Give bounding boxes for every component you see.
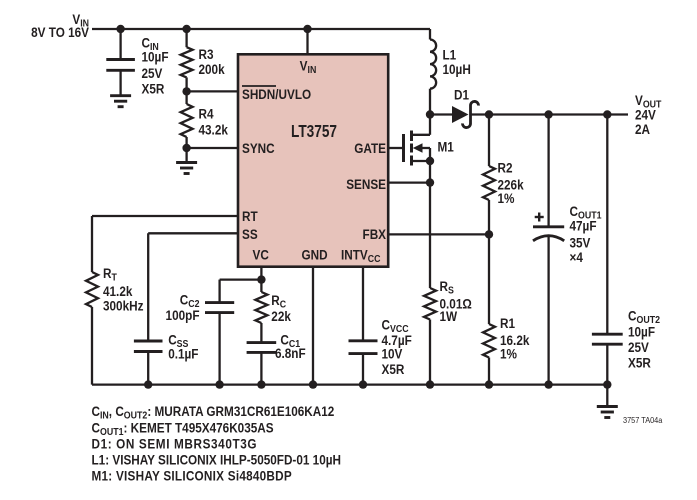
node CIN junction [116,25,124,33]
wire output rail [489,113,628,115]
svg-text:25V: 25V [142,65,163,81]
label U1 pin RT [242,208,258,224]
svg-text:GND: GND [302,247,328,263]
wire VC to CC2 [220,280,262,303]
svg-text:RT: RT [242,208,258,224]
resistor R3 [181,29,193,91]
node COUT1 junction [544,110,552,118]
label BOM note line 5 [92,468,293,484]
wire INTVCC pin [362,266,364,341]
svg-text:10µF: 10µF [628,324,655,340]
svg-text:SS: SS [242,226,258,242]
label BOM note line 2 [92,420,274,439]
resistor R4 [181,91,193,148]
svg-text:1%: 1% [500,346,517,362]
svg-text:R3: R3 [199,46,214,62]
capacitor CC1 [247,343,277,385]
svg-text:FBX: FBX [363,226,387,242]
svg-text:2A: 2A [635,121,650,137]
label U1 pin INTVCC [341,247,380,266]
label RT value [103,265,143,314]
node CC1 ground junction [257,380,265,388]
wire RT to IC [92,216,239,272]
node R1 ground junction [485,380,493,388]
label COUT2 value [628,308,660,371]
label RC value [271,292,291,324]
wire ground rail [92,383,607,385]
svg-text:LT3757: LT3757 [291,123,337,142]
wire VC pin [260,266,262,280]
node CVCC ground junction [359,380,367,388]
node R2 top junction [485,110,493,118]
wire M1 source down [429,161,431,183]
node CSS ground junction [144,380,152,388]
label U1 pin SENSE [346,176,386,192]
ground under CIN [110,96,131,107]
label CSS value [168,331,198,361]
svg-text:300kHz: 300kHz [103,298,143,314]
op-amp U1 LT3757 body [238,54,388,266]
wire SHDN to IC [187,90,239,92]
svg-text:8V TO 16V: 8V TO 16V [31,24,89,40]
label CVCC value [382,316,412,377]
svg-text:VC: VC [253,247,269,263]
label R1 value [500,315,530,362]
label R4 value [199,106,229,138]
label U1 pin SHDN/UVLO [242,86,311,102]
label D1 [454,87,469,103]
wire input rail [92,28,430,30]
svg-text:0.1µF: 0.1µF [168,345,198,361]
node SYNC junction [182,144,190,152]
label VOUT [635,92,662,137]
label COUT1 value [570,203,603,265]
svg-text:R2: R2 [498,160,513,176]
svg-text:X5R: X5R [382,361,405,377]
label R3 value [199,46,226,77]
svg-text:X5R: X5R [142,81,165,97]
resistor RT [86,272,98,385]
label U1 pin GATE [354,140,386,156]
svg-text:1W: 1W [440,308,458,324]
wire SENSE down [429,183,431,288]
wire SS to IC [148,233,238,341]
label U1 pin GND [302,247,328,263]
svg-text:22k: 22k [271,308,291,324]
capacitor CVCC [349,341,378,385]
svg-text:D1: ON SEMI MBRS340T3G: D1: ON SEMI MBRS340T3G [92,436,258,452]
label U1 pin VIN [300,58,317,77]
node SENSE junction [426,178,434,186]
wire VIN pin [306,29,308,56]
label L1 value [443,47,471,78]
svg-text:SENSE: SENSE [346,176,386,192]
node R3 junction [182,25,190,33]
transistor M1 [388,115,430,166]
node VIN input label [31,11,89,40]
resistor RC [255,280,267,343]
label BOM note line 1 [92,403,335,422]
resistor RS [424,288,436,385]
label U1 pin FBX [363,226,387,242]
svg-text:200k: 200k [199,61,226,77]
svg-text:X5R: X5R [628,355,651,371]
svg-text:R4: R4 [199,106,215,122]
label CIN value [142,35,169,97]
svg-text:L1: VISHAY SILICONIX IHLP-5050: L1: VISHAY SILICONIX IHLP-5050FD-01 10µH [92,452,341,468]
node CC2 ground junction [215,380,223,388]
wire SYNC to IC [187,147,239,149]
capacitor CC2 [205,303,234,385]
svg-text:1%: 1% [498,190,515,206]
wire SENSE to IC [388,181,430,183]
resistor R2 [483,115,495,235]
node VOUT junction [603,110,611,118]
svg-text:100pF: 100pF [166,307,200,323]
label U1 name LT3757 [291,123,337,142]
capacitor COUT2 [592,115,623,385]
ground output [597,385,618,418]
svg-text:3757 TA04a: 3757 TA04a [623,416,663,425]
svg-text:10µF: 10µF [142,48,169,64]
label BOM note line 3 [92,436,258,452]
node FBX junction [485,230,493,238]
node COUT2 ground junction [603,380,611,388]
wire GND pin [312,266,314,385]
node VC junction [257,275,265,283]
label CC2 value [166,292,200,324]
svg-text:6.8nF: 6.8nF [275,345,306,361]
node COUT1 ground junction [544,380,552,388]
label BOM note line 4 [92,452,341,468]
node GND junction [309,380,317,388]
label U1 pin SS [242,226,258,242]
svg-text:SYNC: SYNC [242,140,275,156]
svg-text:SHDN/UVLO: SHDN/UVLO [242,86,311,102]
label U1 pin VC [253,247,269,263]
capacitor CIN [106,29,135,95]
node VIN pin junction [303,25,311,33]
label R2 value [498,160,525,207]
svg-text:25V: 25V [628,339,649,355]
label figure number [623,416,663,425]
svg-text:43.2k: 43.2k [199,121,229,137]
svg-text:GATE: GATE [354,140,386,156]
node M1 source junction [426,157,434,165]
capacitor CSS [134,341,163,385]
svg-text:M1: M1 [438,139,454,155]
svg-text:R1: R1 [500,315,515,331]
node RS ground junction [426,380,434,388]
label CC1 value [275,332,306,362]
node switch junction [426,110,434,118]
svg-text:10V: 10V [382,346,403,362]
svg-text:M1: VISHAY SILICONIX Si4840BDP: M1: VISHAY SILICONIX Si4840BDP [92,468,293,484]
label M1 [438,139,454,155]
svg-text:×4: ×4 [570,249,584,265]
resistor R1 [483,234,495,384]
svg-text:10µH: 10µH [443,61,471,77]
label RS value [440,278,472,324]
inductor L1 [430,29,436,115]
capacitor COUT1 [533,115,564,385]
svg-text:D1: D1 [454,87,469,103]
svg-text:47µF: 47µF [570,218,597,234]
diode D1 [430,101,489,127]
node SHDN junction [182,87,190,95]
ground under R4 [176,148,197,174]
label U1 pin SYNC [242,140,275,156]
wire FBX to IC [388,233,489,235]
